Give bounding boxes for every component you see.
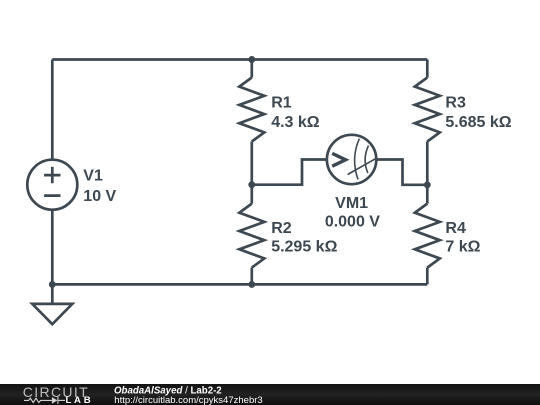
wire right branch top	[426, 60, 429, 78]
CircuitLab logo wordmark	[23, 384, 94, 405]
voltmeter VM1 internal symbol	[332, 139, 375, 180]
wire left branch upper	[51, 60, 54, 160]
svg-text:http://circuitlab.com/cpyks47z: http://circuitlab.com/cpyks47zhebr3	[114, 395, 262, 405]
node junction middle left	[248, 181, 255, 188]
svg-text:R4: R4	[445, 220, 466, 237]
voltmeter VM1	[327, 135, 376, 184]
wire top rail	[52, 58, 427, 61]
svg-text:R1: R1	[271, 94, 292, 111]
wire VM1 right lead	[376, 160, 427, 185]
ground	[32, 284, 72, 324]
wire bottom rail	[52, 283, 427, 286]
CircuitLab logo schematic doodle	[24, 397, 65, 404]
svg-text:4.3 kΩ: 4.3 kΩ	[271, 114, 320, 131]
resistor R4	[415, 204, 440, 268]
wire middle branch top	[250, 60, 253, 78]
node junction middle right	[424, 181, 431, 188]
svg-text:0.000 V: 0.000 V	[325, 213, 380, 230]
wire middle branch bottom	[250, 268, 253, 285]
node junction bottom left	[49, 281, 56, 288]
resistor R2	[239, 204, 264, 268]
resistor R1	[239, 78, 264, 142]
node junction top middle	[248, 56, 255, 63]
svg-text:R2: R2	[271, 220, 292, 237]
svg-text:V1: V1	[83, 168, 103, 185]
svg-text:LAB: LAB	[66, 395, 94, 405]
wire right branch mid	[426, 142, 429, 204]
node junction bottom middle	[248, 281, 255, 288]
svg-text:7 kΩ: 7 kΩ	[445, 238, 480, 255]
wire VM1 left lead	[252, 160, 327, 185]
svg-text:VM1: VM1	[335, 195, 368, 212]
svg-text:5.685 kΩ: 5.685 kΩ	[445, 114, 511, 131]
svg-text:10 V: 10 V	[83, 188, 116, 205]
wire middle branch mid	[250, 142, 253, 204]
wire left branch lower	[51, 210, 54, 285]
svg-text:R3: R3	[445, 94, 466, 111]
resistor R3	[415, 78, 440, 142]
footer credits	[114, 386, 263, 405]
svg-text:5.295 kΩ: 5.295 kΩ	[271, 238, 337, 255]
wire right branch bottom	[426, 268, 429, 285]
voltage source V1	[27, 160, 77, 210]
